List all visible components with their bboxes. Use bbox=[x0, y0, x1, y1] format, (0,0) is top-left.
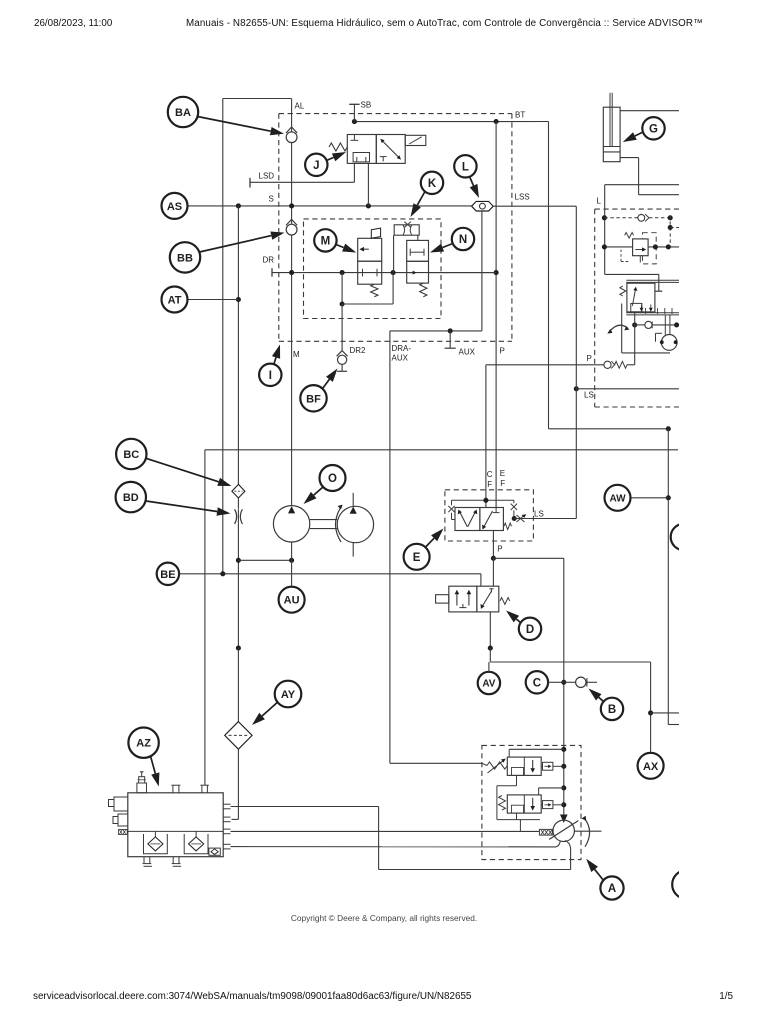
tank filter1 bracket bbox=[144, 834, 168, 854]
motor port R bbox=[674, 340, 678, 344]
node M drain bbox=[340, 301, 345, 306]
arrow D bbox=[506, 611, 521, 623]
arrow M bbox=[336, 244, 356, 253]
svg-text:P: P bbox=[500, 347, 505, 356]
relief arrow bbox=[635, 249, 644, 251]
tank filter2 diamond bbox=[189, 837, 204, 851]
J spring bbox=[329, 143, 347, 151]
tank port T2 bbox=[172, 785, 174, 793]
label circle G bbox=[642, 117, 664, 139]
relief1 arrow bbox=[532, 760, 534, 771]
wire LSS drop v6 bbox=[481, 211, 483, 331]
arrow L bbox=[470, 177, 480, 199]
svg-text:AY: AY bbox=[281, 689, 296, 701]
svg-text:DRA-: DRA- bbox=[392, 344, 412, 353]
wire L to T port bbox=[605, 273, 659, 275]
tank filter1 stub bbox=[154, 831, 156, 837]
J pilot box bbox=[353, 153, 369, 162]
label circle BA bbox=[168, 97, 198, 127]
steering spring bbox=[620, 286, 626, 296]
arrow O bbox=[304, 487, 324, 504]
M spring bbox=[371, 284, 378, 297]
wire v2 upper bbox=[237, 206, 239, 485]
D spring bbox=[500, 598, 510, 605]
arrow AY bbox=[252, 702, 278, 725]
wheel check valve bbox=[645, 321, 652, 328]
pump box top edge bbox=[205, 449, 678, 451]
dashed steering-block top bbox=[279, 113, 512, 115]
arrow N bbox=[430, 244, 453, 253]
wire G rod exit bbox=[639, 194, 679, 196]
wire AV link bbox=[488, 662, 490, 672]
dashed pilot drop bbox=[669, 215, 671, 246]
steering tick2 bbox=[657, 308, 659, 314]
E restr X right bbox=[511, 504, 517, 510]
steering mark1 bbox=[641, 305, 643, 311]
node DR-M bbox=[340, 270, 345, 275]
label circle AU bbox=[279, 587, 305, 613]
dashed steering-block right bbox=[511, 114, 513, 342]
label circle BE bbox=[157, 563, 179, 585]
node S-AL bbox=[289, 203, 294, 208]
wire AUX stub bbox=[449, 331, 451, 348]
steering tick3 bbox=[664, 308, 666, 314]
node E-LS bbox=[512, 516, 517, 521]
arrow G bbox=[623, 132, 642, 142]
relief valve 1 bbox=[507, 757, 541, 775]
steering boundary bottom bbox=[622, 352, 670, 354]
pilot check valve bbox=[638, 214, 645, 221]
dashed relief drain L bbox=[620, 250, 622, 262]
label circle AS bbox=[162, 193, 188, 219]
arrow AZ bbox=[151, 756, 160, 787]
wire v2 to AY bbox=[237, 648, 239, 722]
tank filter2 stub bbox=[195, 831, 197, 837]
relief2 spring bbox=[499, 796, 506, 811]
wire v9 exit bbox=[668, 724, 679, 726]
svg-text:DR: DR bbox=[263, 256, 275, 265]
svg-text:AV: AV bbox=[482, 679, 495, 690]
wire G head line bbox=[620, 110, 679, 112]
node AW bbox=[666, 495, 671, 500]
wire pump to AU bbox=[291, 542, 293, 587]
wire C link bbox=[548, 681, 564, 683]
node wheel bbox=[632, 322, 637, 327]
filter AY diamond bbox=[225, 722, 252, 750]
arrow E bbox=[426, 529, 444, 548]
wire relief2 drain bbox=[516, 813, 518, 820]
tank filter1 diamond bbox=[148, 837, 163, 851]
relief2 pilot box bbox=[512, 805, 524, 813]
valve D right position bbox=[477, 586, 499, 612]
E LS orifice X bbox=[517, 515, 525, 522]
svg-text:D: D bbox=[526, 624, 534, 636]
label circle AW bbox=[605, 485, 631, 511]
svg-text:BA: BA bbox=[175, 107, 191, 119]
M solenoid bbox=[371, 228, 380, 238]
E flow diag bbox=[484, 511, 493, 528]
J arrowhead bbox=[397, 155, 401, 159]
E blocked E-port bbox=[495, 508, 497, 513]
B check seat bbox=[586, 678, 588, 687]
J flow arrow bbox=[381, 140, 400, 159]
valve E left position bbox=[455, 508, 480, 531]
wire AL riser upper bbox=[291, 99, 293, 132]
wire venturi left down bbox=[393, 235, 395, 272]
svg-text:G: G bbox=[649, 123, 658, 135]
svg-text:M: M bbox=[321, 236, 331, 248]
steering wheel arc bbox=[610, 325, 628, 331]
node AX branch bbox=[648, 710, 653, 715]
cylinder G rod bbox=[609, 93, 611, 147]
label circle N bbox=[452, 228, 474, 250]
wire tank return port1 bbox=[231, 806, 379, 808]
N spring bbox=[420, 283, 427, 297]
wire J to LSD bbox=[353, 163, 355, 182]
steering pilot box bbox=[631, 303, 642, 312]
wire motor feed1 bbox=[664, 315, 666, 335]
node wheel out bbox=[674, 322, 679, 327]
DR2 tank bar bbox=[337, 370, 347, 372]
svg-text:SB: SB bbox=[361, 101, 372, 110]
relief valve (L box) bbox=[633, 239, 649, 256]
E left drop bbox=[451, 500, 453, 505]
relief drain bbox=[639, 256, 641, 263]
wire L branch line bbox=[605, 184, 679, 186]
svg-text:AZ: AZ bbox=[136, 738, 151, 750]
wire P supply bbox=[486, 364, 604, 366]
tank right port y=819.4 bbox=[223, 816, 230, 818]
dashed pilot line bbox=[604, 217, 637, 219]
wire M drain bbox=[341, 273, 343, 304]
label circle K bbox=[421, 172, 443, 194]
dashed L-box left bbox=[594, 209, 596, 407]
port SB bar bbox=[349, 103, 359, 105]
pump O circle1 bbox=[273, 506, 309, 542]
svg-text:BE: BE bbox=[160, 569, 175, 581]
restrictor BD bbox=[235, 509, 237, 524]
svg-text:DR2: DR2 bbox=[350, 346, 367, 355]
label circle BD bbox=[116, 482, 146, 512]
T port bar bbox=[655, 290, 662, 292]
valve J left position bbox=[347, 135, 376, 164]
D arrow2 bbox=[468, 592, 470, 606]
shuttle ball bbox=[480, 203, 486, 209]
wire AL-box top bbox=[223, 98, 292, 100]
tank bottom stub2 bbox=[172, 857, 174, 864]
E LS arrowhead bbox=[522, 514, 527, 518]
svg-text:AX: AX bbox=[643, 761, 659, 773]
valve J right position bbox=[376, 135, 405, 164]
wire suction riser bbox=[570, 848, 572, 870]
valve M upper bbox=[358, 238, 382, 261]
wire pump inlet link bbox=[238, 559, 291, 561]
wire v4 pump column bbox=[389, 331, 391, 763]
svg-text:M: M bbox=[293, 350, 300, 359]
wire relief out bbox=[648, 246, 679, 248]
svg-text:AT: AT bbox=[168, 294, 182, 306]
D arrow1 bbox=[456, 592, 458, 606]
pump A coupling bbox=[539, 829, 552, 835]
steering motor bbox=[661, 335, 677, 351]
pump A circle bbox=[553, 820, 574, 841]
M port tick bbox=[362, 269, 364, 277]
cylinder G body bbox=[603, 107, 620, 162]
wire LSS line bbox=[493, 205, 576, 207]
svg-text:P: P bbox=[587, 354, 592, 363]
dashed E valve box bbox=[445, 490, 534, 541]
steering tick1 bbox=[645, 308, 647, 314]
tank filter3 box bbox=[209, 848, 220, 855]
N tick1 bbox=[409, 249, 411, 256]
wire D to return bbox=[489, 612, 491, 648]
node BE-v1 bbox=[220, 571, 225, 576]
wire P to D bbox=[492, 558, 494, 586]
wire P dist bbox=[493, 557, 563, 559]
wire return elbow bbox=[378, 807, 380, 870]
relief1 adjust arrow bbox=[488, 760, 505, 773]
wire BT line bbox=[354, 121, 548, 123]
pump O arrow2 bbox=[350, 507, 357, 514]
pump rotation arc bbox=[336, 507, 342, 542]
wire L riser bbox=[604, 185, 606, 275]
filter BC diamond bbox=[232, 484, 245, 498]
node BT-P bbox=[494, 119, 499, 124]
wire N drain bbox=[392, 273, 394, 304]
wire AL riser mid bbox=[291, 143, 293, 225]
tank breather bbox=[137, 783, 147, 793]
check valve B bbox=[576, 677, 586, 687]
check valve BB bbox=[286, 224, 297, 235]
svg-text:AU: AU bbox=[284, 595, 300, 607]
tank bottom stub1 bbox=[143, 857, 145, 864]
node AU link bbox=[289, 558, 294, 563]
svg-text:Copyright © Deere & Company, a: Copyright © Deere & Company, all rights … bbox=[291, 913, 477, 923]
node DR-N bbox=[391, 270, 396, 275]
E restr X left bbox=[448, 506, 454, 512]
D blocked bbox=[489, 588, 493, 590]
label circle L bbox=[454, 155, 476, 177]
svg-text:P: P bbox=[497, 545, 502, 554]
wire T drop bbox=[658, 274, 660, 291]
wire SB stub bbox=[353, 104, 355, 121]
wire shaft line port3 bbox=[231, 830, 540, 832]
wire E LS out bbox=[514, 518, 576, 520]
wire wheel out bbox=[652, 324, 679, 326]
tank left port x bbox=[119, 830, 128, 835]
node S-v2 bbox=[236, 203, 241, 208]
node pr2 top bbox=[561, 785, 566, 790]
wire DR2 drain bbox=[341, 364, 343, 371]
svg-text:S: S bbox=[269, 195, 274, 204]
label circle E bbox=[404, 544, 430, 570]
pump shaft bottom bbox=[310, 528, 337, 530]
wire AX exit bbox=[651, 712, 679, 714]
valve E right position bbox=[480, 508, 504, 531]
wire C/F column bbox=[485, 365, 487, 508]
arrow I bbox=[272, 345, 280, 364]
svg-text:F: F bbox=[500, 479, 505, 488]
wire AT link bbox=[188, 299, 239, 301]
wire wheel link bbox=[635, 324, 645, 326]
wire B out bbox=[587, 681, 597, 683]
D tank tick bbox=[462, 604, 464, 608]
wire P into steering bbox=[634, 312, 636, 365]
arrow K bbox=[411, 192, 426, 218]
wire drain run bbox=[497, 819, 540, 821]
pump A shaft out bbox=[574, 830, 601, 832]
svg-text:J: J bbox=[313, 160, 319, 172]
dashed steering-block left bbox=[278, 114, 280, 342]
AUX bar bbox=[445, 347, 456, 349]
node pr2 bbox=[561, 802, 566, 807]
svg-text:LSS: LSS bbox=[515, 193, 530, 202]
J blocked port bbox=[353, 135, 355, 141]
node D return bbox=[488, 646, 493, 651]
wire BE to D bbox=[480, 574, 482, 586]
svg-text:AW: AW bbox=[609, 493, 626, 504]
node P-E bbox=[491, 556, 496, 561]
pump box left edge bbox=[204, 450, 206, 785]
tank port T3 bbox=[201, 785, 203, 793]
wire return run bbox=[490, 661, 650, 663]
svg-text:LSD: LSD bbox=[259, 172, 275, 181]
label circle AX bbox=[638, 753, 664, 779]
relief1 spring bbox=[487, 762, 507, 769]
svg-text:K: K bbox=[428, 178, 437, 190]
svg-text:LS: LS bbox=[534, 510, 544, 519]
wire G rod line bbox=[620, 157, 639, 159]
dashed L-box top bbox=[595, 208, 679, 210]
P check valve bbox=[604, 361, 611, 368]
relief1 pilot box bbox=[512, 768, 524, 776]
E internal top line bbox=[452, 499, 514, 501]
node relief r1 bbox=[653, 244, 658, 249]
tank internal rail bbox=[128, 830, 223, 832]
E spring bbox=[504, 523, 512, 529]
shuttle valve L (hexagon) bbox=[472, 201, 494, 211]
E flow V left bbox=[460, 512, 468, 527]
label circle clipped2 bbox=[672, 870, 701, 899]
label circle BF bbox=[300, 385, 326, 411]
wire LSD line bbox=[250, 181, 354, 183]
tank right port y=831.4 bbox=[223, 828, 230, 830]
svg-text:O: O bbox=[328, 473, 337, 485]
tank right port y=806.5 bbox=[223, 803, 230, 805]
motor bracket bbox=[656, 332, 663, 334]
tank filter3 diamond bbox=[211, 849, 218, 855]
svg-text:E: E bbox=[500, 469, 505, 478]
node pr1 bbox=[561, 764, 566, 769]
node E-C bbox=[483, 498, 488, 503]
svg-text:26/08/2023, 11:00: 26/08/2023, 11:00 bbox=[34, 18, 113, 29]
wire v2 to tank bbox=[237, 749, 239, 819]
wire relief1 drain bbox=[516, 775, 518, 785]
wire DR line bbox=[272, 272, 496, 274]
svg-text:AUX: AUX bbox=[459, 348, 476, 357]
node C bbox=[561, 680, 566, 685]
svg-text:C: C bbox=[533, 677, 541, 689]
D solenoid bbox=[436, 595, 449, 603]
node v2-return bbox=[236, 646, 241, 651]
dashed M/N valve box bbox=[304, 219, 442, 319]
node BT corner bbox=[666, 426, 671, 431]
relief2 connector bbox=[543, 801, 553, 809]
wire tank port2 elbow bbox=[232, 818, 239, 820]
venturi restrictor bbox=[394, 225, 419, 235]
wire G rod down bbox=[638, 158, 640, 195]
label circle D bbox=[519, 618, 541, 640]
pump A inlet arrow bbox=[560, 815, 568, 824]
node SB bbox=[352, 119, 357, 124]
svg-text:L: L bbox=[597, 197, 602, 206]
N arrow bbox=[409, 272, 415, 274]
svg-text:C: C bbox=[487, 470, 493, 479]
steering tick4 bbox=[671, 308, 673, 314]
svg-text:AL: AL bbox=[295, 102, 305, 111]
port DR bar bbox=[271, 268, 273, 276]
node pr1 top bbox=[561, 747, 566, 752]
relief1 connector bbox=[543, 762, 553, 770]
svg-text:Manuais - N82655-UN: Esquema H: Manuais - N82655-UN: Esquema Hidráulico,… bbox=[186, 18, 703, 29]
wire v2 lower bbox=[237, 509, 239, 648]
label circle I bbox=[259, 364, 281, 386]
tank left fitting 2 bbox=[118, 814, 128, 826]
label circle C bbox=[526, 671, 548, 693]
suction curve bbox=[565, 841, 571, 849]
valve N upper bbox=[407, 240, 429, 261]
wire to B check bbox=[564, 681, 576, 683]
steering control valve bbox=[627, 283, 655, 312]
svg-text:AS: AS bbox=[167, 201, 182, 213]
valve D left position bbox=[449, 586, 477, 612]
check valve DR2 seat bbox=[337, 351, 348, 357]
wire suction port4 bbox=[231, 846, 557, 848]
valve N lower bbox=[407, 261, 429, 283]
pump shaft stub top bbox=[352, 493, 354, 507]
relief2 arrow bbox=[532, 798, 534, 809]
wire suction bottom bbox=[379, 869, 571, 871]
arrow BB bbox=[200, 232, 285, 253]
steering arrow bbox=[632, 289, 635, 306]
wire v4 to relief spring bbox=[390, 762, 482, 764]
node DR-AL bbox=[289, 270, 294, 275]
check valve DR2 bbox=[338, 355, 347, 364]
arrow BD bbox=[146, 501, 231, 516]
arrow BC bbox=[146, 458, 232, 486]
svg-text:E: E bbox=[413, 552, 421, 564]
label circle O bbox=[320, 465, 346, 491]
svg-text:F: F bbox=[487, 480, 492, 489]
wire N to DR end bbox=[429, 272, 497, 274]
label circle BC bbox=[116, 439, 146, 469]
wire return drop bbox=[489, 648, 491, 662]
arrow J bbox=[327, 152, 347, 161]
wire S line bbox=[188, 205, 472, 207]
wire v7 LSS column bbox=[575, 206, 577, 518]
tank left fitting 1 bbox=[114, 797, 128, 811]
dashed pump A box bbox=[482, 745, 581, 859]
label circle clipped1 bbox=[671, 524, 698, 551]
svg-text:serviceadvisorlocal.deere.com:: serviceadvisorlocal.deere.com:3074/WebSA… bbox=[33, 991, 472, 1002]
wire to DR2 bbox=[341, 304, 343, 351]
label circle A bbox=[600, 876, 623, 899]
wire drain loop bbox=[342, 303, 393, 305]
svg-text:BF: BF bbox=[306, 393, 321, 405]
motor port L bbox=[660, 340, 664, 344]
arrow BA bbox=[198, 117, 285, 136]
svg-text:AUX: AUX bbox=[392, 354, 409, 363]
